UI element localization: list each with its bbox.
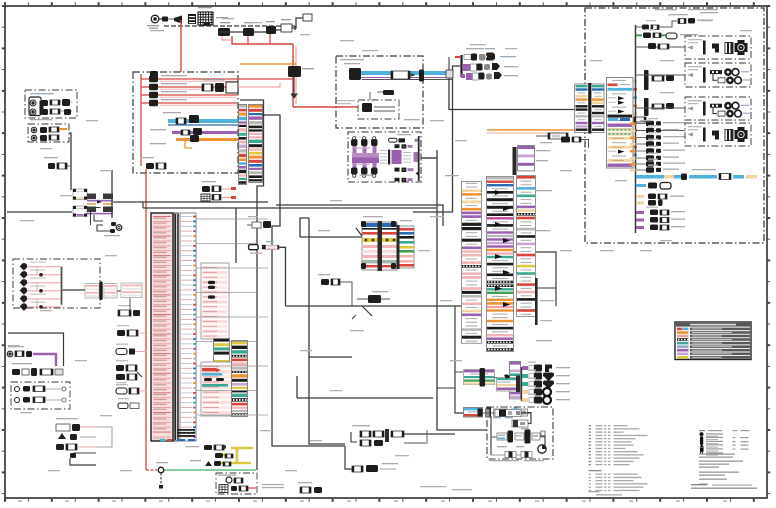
wire h306 <box>286 305 463 307</box>
right purple rows <box>636 210 685 231</box>
conn cluster L2 <box>12 363 63 376</box>
harness connector X2 <box>397 225 415 269</box>
relay cluster top right <box>202 79 238 93</box>
wire to sb4 <box>635 130 685 132</box>
ECM top conn <box>249 241 280 254</box>
fuse block hatch <box>198 7 228 26</box>
ECM conn rows <box>214 339 230 364</box>
wire h237 <box>300 218 362 237</box>
ECM wire stubs <box>196 219 268 415</box>
relay box L <box>11 382 70 409</box>
junction block L <box>87 194 113 215</box>
sb1 inline parts <box>648 43 669 49</box>
right col main <box>607 78 634 169</box>
wire left drop <box>69 133 71 190</box>
wire to sb1 <box>635 46 685 48</box>
small cluster top right <box>452 48 518 80</box>
wire to sb2 <box>635 74 685 76</box>
column B arrows <box>495 190 510 307</box>
wire red end <box>146 469 157 471</box>
alarm box labels <box>489 460 544 461</box>
right lamp row <box>636 183 671 190</box>
connector strip CN1 <box>239 105 247 185</box>
connector strip CN2 <box>249 105 263 183</box>
sub box 2 <box>685 63 751 87</box>
conn group second <box>494 374 520 392</box>
diode D1 <box>218 22 230 36</box>
right trunk <box>635 25 637 233</box>
sender bus wire <box>62 289 85 291</box>
wire bc <box>437 306 463 413</box>
column labels <box>445 175 552 341</box>
bc small comps <box>186 445 233 466</box>
wire bl connect <box>96 427 112 447</box>
conn teal small <box>464 407 532 421</box>
starter relay K1 <box>188 14 196 24</box>
right bars <box>644 70 674 116</box>
X1 labels <box>363 216 412 221</box>
cab box labels <box>655 9 718 13</box>
wire cyan ext <box>430 70 453 78</box>
ECM side column <box>232 341 248 417</box>
ECM block J1 <box>151 213 173 441</box>
conn pair bc4 <box>298 482 322 493</box>
breaker CB1 <box>281 19 292 32</box>
connector mid right <box>536 133 568 139</box>
wire orange2 <box>150 135 238 148</box>
cluster bc2 <box>351 425 455 446</box>
junction vertical <box>111 170 113 218</box>
lamp box 2 <box>28 119 69 142</box>
column C top bar <box>513 147 517 175</box>
wire trunk v4 <box>449 79 575 110</box>
column C bar <box>535 278 538 325</box>
connector pair A <box>247 216 271 228</box>
connector stack L <box>73 189 87 217</box>
right teal run <box>636 169 757 180</box>
wire junction out <box>91 202 269 225</box>
connector pair A2 <box>201 181 236 201</box>
color legend table <box>675 322 751 360</box>
connector purple low <box>510 362 521 399</box>
wire h398 <box>297 376 433 398</box>
wire buzz loop <box>94 215 110 231</box>
wire h357 <box>309 356 352 358</box>
wire red drop <box>145 169 147 470</box>
buzzer B1 <box>104 222 122 236</box>
component small <box>370 90 394 100</box>
ECM labels <box>154 218 167 430</box>
right tan rows <box>636 194 684 208</box>
diode D2 <box>243 22 254 36</box>
ECM pinout strip <box>160 213 196 441</box>
sub box 4 <box>685 123 751 146</box>
sensor S5 <box>352 291 390 319</box>
wire cyan trunk <box>352 71 453 80</box>
left conn column <box>116 305 148 409</box>
diode lamp cluster <box>522 362 571 405</box>
wire pump out <box>421 157 437 159</box>
fuse panel box <box>133 72 238 173</box>
wire ecm top conn <box>280 247 286 306</box>
component small L1 <box>44 157 71 169</box>
wire h212 left <box>7 211 72 213</box>
bottom left cluster <box>56 418 96 450</box>
wire orange top right <box>487 130 574 133</box>
sub box 3 <box>685 97 751 120</box>
pump box parts <box>351 134 420 182</box>
sender box <box>13 259 100 308</box>
sender conn right <box>121 283 142 298</box>
main harness column C <box>517 176 536 317</box>
wire trunk v3 <box>437 150 487 430</box>
main harness column A <box>462 182 482 344</box>
trunk x236 <box>235 208 237 263</box>
wire top dashed run <box>164 26 295 30</box>
connector top C <box>518 146 551 171</box>
wire trunk v5 <box>413 66 453 212</box>
wire purple <box>150 128 238 135</box>
fuse F6 <box>140 157 166 169</box>
wire bl steps <box>70 453 96 465</box>
main harness column B <box>487 177 514 352</box>
inline connector <box>391 71 410 79</box>
ECM aux column <box>201 263 229 339</box>
alarm box <box>487 407 553 459</box>
right col stubs <box>634 80 638 164</box>
right top row <box>636 14 713 30</box>
lamp box 1 <box>25 90 77 118</box>
component ladder <box>630 118 685 173</box>
wire trunk v6 <box>309 218 345 444</box>
key connector <box>168 16 182 24</box>
connector bar <box>419 70 424 82</box>
wire green run <box>164 469 256 471</box>
ground G1 <box>156 462 168 489</box>
wire colC right <box>536 287 556 289</box>
conn group purple <box>464 368 495 387</box>
yellow wires <box>216 448 253 463</box>
wire cyan AC <box>163 112 238 125</box>
converter labels <box>340 59 420 120</box>
relay K2 <box>266 21 276 34</box>
wire orange run <box>240 63 296 65</box>
right cyan blue <box>608 117 646 122</box>
harness connector X1 <box>356 221 397 271</box>
motor M1 <box>344 63 361 80</box>
ECM aux column 2 <box>201 362 235 416</box>
wire list text <box>589 425 648 496</box>
wire h208 <box>143 207 436 209</box>
connector pair B <box>318 274 352 306</box>
notes text block <box>691 430 757 489</box>
wire trunk v2 <box>262 115 345 446</box>
purple run <box>7 346 56 366</box>
fuse rows F1-F4 <box>141 74 237 166</box>
wire red feed battery <box>180 20 182 72</box>
wire red main loop <box>222 34 358 107</box>
cluster bc3 <box>345 446 398 472</box>
wire trunk v1 <box>240 100 264 470</box>
wire h109 cluster <box>448 57 450 79</box>
pump box <box>348 132 421 182</box>
cab harness box <box>585 8 764 243</box>
arrow mark <box>408 73 414 77</box>
wire upper left L <box>8 333 64 366</box>
sender conn pair <box>85 282 121 301</box>
wire sender down <box>130 298 131 310</box>
sub box 1 <box>685 36 751 59</box>
wire row2 dark <box>218 14 312 32</box>
fuse F5 blob <box>150 71 158 77</box>
component A3 <box>288 66 314 98</box>
alarm box parts <box>483 408 546 458</box>
right col pair L <box>575 83 605 134</box>
sender rows <box>20 261 63 310</box>
starter box <box>216 473 257 494</box>
wire red right <box>238 79 293 87</box>
right top row2 <box>636 29 698 39</box>
key switch S1 <box>147 15 168 29</box>
right col pair wire <box>561 137 589 149</box>
wire to sb3 <box>635 107 685 109</box>
wire right feed <box>513 252 556 306</box>
relay box inner <box>337 100 399 119</box>
converter box <box>336 56 423 128</box>
ECM dark bar <box>174 213 178 441</box>
wire h205 <box>276 205 443 226</box>
footer micro text <box>262 484 284 488</box>
